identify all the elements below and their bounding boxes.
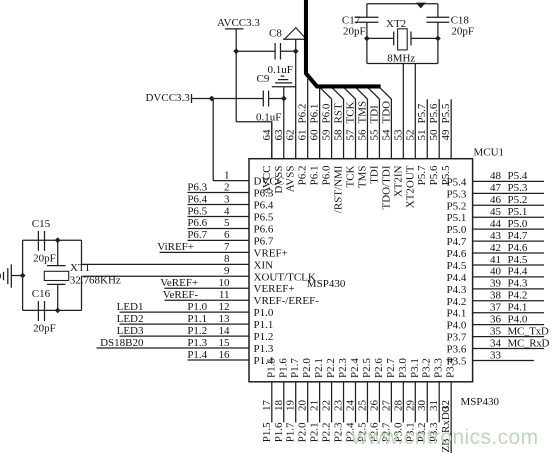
svg-text:59: 59 xyxy=(321,129,333,141)
svg-text:P6.6: P6.6 xyxy=(187,217,207,229)
svg-text:P6.7: P6.7 xyxy=(254,235,274,247)
svg-text:TCK: TCK xyxy=(344,101,356,123)
svg-text:P3.2: P3.2 xyxy=(421,358,433,378)
net label P2.2 pin 22 (rotated) xyxy=(321,422,333,442)
svg-text:P1.1: P1.1 xyxy=(254,319,274,331)
svg-text:P6.1: P6.1 xyxy=(309,104,321,124)
ground symbol (left, XT1) xyxy=(0,264,22,287)
svg-text:61: 61 xyxy=(297,130,309,141)
pin number 35 xyxy=(490,325,502,337)
svg-text:49: 49 xyxy=(440,129,452,141)
wire pin 64 (top) xyxy=(271,122,273,159)
svg-text:33: 33 xyxy=(490,349,502,361)
pin number 58 (rotated) xyxy=(333,129,345,141)
net label P5.1 pin 45 xyxy=(508,206,528,218)
wire pin 58 (top) xyxy=(343,99,345,159)
capacitor C17 value 20pF xyxy=(343,26,366,38)
svg-text:43: 43 xyxy=(490,230,502,242)
svg-text:64: 64 xyxy=(261,129,273,141)
wire pin 18 (bottom) xyxy=(283,382,285,423)
svg-text:P4.0: P4.0 xyxy=(447,320,467,332)
chip internal pin name P2.7 (pin 27) xyxy=(385,358,397,378)
chip part label MSP430 (bottom right) xyxy=(461,396,500,408)
chip internal pin name P4.1 (pin 37) xyxy=(447,308,467,320)
chip internal label MSP430 xyxy=(307,278,346,290)
node junction XT1 top xyxy=(55,237,61,243)
pin number 23 (rotated) xyxy=(333,400,345,412)
svg-text:30: 30 xyxy=(416,400,428,412)
wire pin 61 (top) xyxy=(307,79,309,159)
wire pin 31 (bottom) xyxy=(438,382,440,423)
net label DS18B20 (P1.3) xyxy=(100,337,144,349)
svg-text:C8: C8 xyxy=(269,28,282,40)
wire pin 34 (right) xyxy=(473,348,544,350)
svg-text:P6.3: P6.3 xyxy=(187,181,207,193)
power rail DVCC3.3 label xyxy=(145,92,190,104)
chip internal pin name P4.4 (pin 40) xyxy=(447,272,467,284)
pin number 17 (rotated) xyxy=(261,400,273,412)
power rail AVCC3.3 bar symbol xyxy=(225,28,244,30)
wire pin 48 (right) xyxy=(473,180,544,182)
pin number 3 xyxy=(224,193,230,205)
wire pin 26 (bottom) xyxy=(378,382,380,423)
svg-text:1: 1 xyxy=(224,169,230,181)
wire pin 24 (bottom) xyxy=(354,382,356,423)
pin number 48 xyxy=(490,170,502,182)
net label P4.3 pin 39 xyxy=(508,278,528,290)
chip internal pin name P6.5 (pin 4) xyxy=(254,211,274,223)
wire DVCC3.3 to C9 xyxy=(192,98,264,100)
chip reference designator MCU1 xyxy=(474,147,505,159)
svg-text:P4.6: P4.6 xyxy=(508,242,528,254)
chip internal pin name P1.1 (pin 13) xyxy=(254,319,274,331)
wire XT2 bottom xyxy=(367,63,438,65)
wire pin 56 (top) xyxy=(366,99,368,159)
svg-text:P6.2: P6.2 xyxy=(297,104,309,124)
svg-text:/RST/NMI: /RST/NMI xyxy=(333,165,345,213)
svg-text:P3.3: P3.3 xyxy=(433,358,445,378)
pin number 6 xyxy=(224,229,230,241)
svg-text:P2.2: P2.2 xyxy=(325,358,337,378)
net label VeREF- pin 11 xyxy=(163,289,199,301)
svg-text:P5.5: P5.5 xyxy=(440,165,452,185)
power rail DVCC3.3 tick xyxy=(191,94,193,103)
svg-text:P4.7: P4.7 xyxy=(508,230,528,242)
pin number 26 (rotated) xyxy=(368,400,380,412)
svg-text:AVSS: AVSS xyxy=(285,166,297,193)
svg-text:P2.1: P2.1 xyxy=(313,358,325,378)
chip internal pin name P2.0 (pin 20) xyxy=(301,358,313,378)
svg-text:TCK: TCK xyxy=(344,165,356,187)
net label RST pin 58 (rotated) xyxy=(333,103,345,123)
wire pin 37 (right) xyxy=(473,312,544,314)
svg-text:13: 13 xyxy=(219,313,231,325)
pin number 11 xyxy=(219,289,230,301)
wire pin 29 (bottom) xyxy=(414,382,416,423)
wire pin 9 (left) xyxy=(82,275,250,277)
wire pin 5 (left) xyxy=(188,227,250,229)
wire XT2 left vertical upper xyxy=(366,4,368,17)
svg-text:P5.0: P5.0 xyxy=(508,218,528,230)
svg-text:20pF: 20pF xyxy=(33,252,56,264)
svg-text:27: 27 xyxy=(380,400,392,412)
pin number 15 xyxy=(219,337,231,349)
net label P1.4 pin 16 xyxy=(187,349,207,361)
svg-text:P1.3: P1.3 xyxy=(254,343,274,355)
net label TCK pin 57 (rotated) xyxy=(344,101,356,123)
svg-text:XT1: XT1 xyxy=(70,262,90,274)
chip internal pin name P2.3 (pin 23) xyxy=(337,358,349,378)
wire XT1 loop bottom xyxy=(23,309,82,311)
svg-text:P1.2: P1.2 xyxy=(187,325,207,337)
svg-text:20pF: 20pF xyxy=(343,26,366,38)
svg-text:6: 6 xyxy=(224,229,230,241)
svg-text:52: 52 xyxy=(404,130,416,141)
svg-text:P5.2: P5.2 xyxy=(508,194,528,206)
wire pin 60 (top) xyxy=(319,87,321,159)
wire pin 23 (bottom) xyxy=(343,382,345,423)
wire bus entry diagonal pin 55 xyxy=(368,88,379,99)
wire bus entry diagonal pin 54 xyxy=(380,88,391,99)
chip internal pin name P5.7 (pin 51) xyxy=(416,165,428,185)
capacitor C9 plates xyxy=(263,91,268,107)
svg-text:P5.5: P5.5 xyxy=(440,103,452,123)
pin number 25 (rotated) xyxy=(356,400,368,412)
wire pin 14 (left) xyxy=(120,335,250,337)
wire pin 57 (top) xyxy=(354,99,356,159)
svg-text:P4.1: P4.1 xyxy=(447,308,467,320)
net label P5.4 pin 48 xyxy=(508,170,528,182)
wire pin 25 (bottom) xyxy=(366,382,368,423)
wire XT1 loop left vertical xyxy=(22,240,24,310)
pin number 21 (rotated) xyxy=(309,400,321,411)
capacitor C17 label xyxy=(342,15,361,27)
pin number 32 (rotated) xyxy=(440,400,452,411)
pin number 47 xyxy=(490,182,502,194)
wire pin 50 (top) xyxy=(438,99,440,159)
wire XT2 top xyxy=(367,3,438,5)
wire pin 10 (left) xyxy=(165,287,250,289)
svg-text:4: 4 xyxy=(224,205,230,217)
pin number 28 (rotated) xyxy=(392,400,404,412)
svg-text:P4.1: P4.1 xyxy=(508,302,528,314)
chip internal pin name DVSS (pin 63) xyxy=(273,166,285,194)
chip internal pin name XT2IN (pin 53) xyxy=(392,165,404,197)
wire pin 39 (right) xyxy=(473,288,544,290)
svg-text:5: 5 xyxy=(224,217,230,229)
pin number 60 (rotated) xyxy=(309,129,321,141)
node junction XT2 right xyxy=(435,36,441,42)
chip internal pin name P6.0 (pin 59) xyxy=(321,165,333,185)
net label VeREF+ pin 10 xyxy=(160,277,198,289)
net label P5.0 pin 44 xyxy=(508,218,528,230)
chip internal pin name P3.3 (pin 31) xyxy=(433,358,445,378)
svg-text:P1.6: P1.6 xyxy=(277,358,289,378)
wire pin 15 (left) xyxy=(97,347,250,349)
pin number 5 xyxy=(224,217,230,229)
wire pin 16 (left) xyxy=(188,359,250,361)
svg-text:41: 41 xyxy=(490,254,501,266)
pin number 36 xyxy=(490,313,502,325)
pin number 1 xyxy=(224,169,230,181)
net label P5.6 pin 50 (rotated) xyxy=(428,103,440,123)
net label TDO pin 54 (rotated) xyxy=(380,101,392,124)
svg-text:28: 28 xyxy=(392,400,404,412)
wire pin 28 (bottom) xyxy=(402,382,404,423)
net label P1.1 pin 13 xyxy=(187,313,207,325)
pin number 10 xyxy=(219,277,231,289)
pin number 22 (rotated) xyxy=(321,400,333,411)
wire XT2 right vertical upper xyxy=(437,4,439,17)
svg-text:XT2OUT: XT2OUT xyxy=(404,165,416,208)
svg-text:www.cntronics.com: www.cntronics.com xyxy=(351,426,539,449)
wire pin 21 (bottom) xyxy=(319,382,321,423)
svg-text:P5.6: P5.6 xyxy=(428,103,440,123)
wire pin 35 (right) xyxy=(473,336,544,338)
pin number 41 xyxy=(490,254,501,266)
pin number 19 (rotated) xyxy=(285,400,297,412)
svg-text:44: 44 xyxy=(490,218,502,230)
pin number 53 (rotated) xyxy=(392,129,404,141)
net label P6.3 pin 2 xyxy=(187,181,207,193)
net label P4.0 pin 36 xyxy=(508,313,528,325)
svg-text:P1.5: P1.5 xyxy=(261,422,273,442)
svg-text:P4.5: P4.5 xyxy=(447,260,467,272)
wire XT2 crystal row left xyxy=(367,37,394,39)
svg-text:P1.5: P1.5 xyxy=(265,358,277,378)
pin number 24 (rotated) xyxy=(344,400,356,412)
svg-text:P3.1: P3.1 xyxy=(409,358,421,378)
bus thick wire (JTAG bundle) xyxy=(306,0,381,86)
wire pin 27 (bottom) xyxy=(390,382,392,423)
wire pin 33 (right) xyxy=(473,360,534,362)
wire pin 17 (bottom) xyxy=(271,382,273,423)
pin number 49 (rotated) xyxy=(440,129,452,141)
svg-text:P5.7: P5.7 xyxy=(416,165,428,185)
net label P6.6 pin 5 xyxy=(187,217,207,229)
chip internal pin name P3.4 (pin 32) xyxy=(445,358,457,378)
pin number 54 (rotated) xyxy=(380,129,392,141)
crystal XT2 symbol xyxy=(394,29,411,50)
svg-text:P2.2: P2.2 xyxy=(321,422,333,442)
wire XT1 loop top xyxy=(23,239,82,241)
net label P4.6 pin 42 xyxy=(508,242,528,254)
svg-text:50: 50 xyxy=(428,129,440,141)
chip internal pin name P4.7 (pin 43) xyxy=(447,236,467,248)
pin number 37 xyxy=(490,302,502,314)
svg-text:ViREF+: ViREF+ xyxy=(157,241,194,253)
wire pin 55 (top) xyxy=(378,99,380,159)
svg-text:15: 15 xyxy=(219,337,231,349)
svg-text:TMS: TMS xyxy=(356,101,368,124)
pin number 62 (rotated) xyxy=(285,130,297,141)
capacitor C15 plates xyxy=(38,231,44,251)
chip internal pin name P4.6 (pin 42) xyxy=(447,248,467,260)
svg-text:LED1: LED1 xyxy=(117,301,144,313)
chip internal pin name TCK (pin 57) xyxy=(344,165,356,187)
svg-text:19: 19 xyxy=(285,400,297,412)
svg-text:P2.3: P2.3 xyxy=(337,358,349,378)
svg-text:P1.7: P1.7 xyxy=(285,422,297,442)
chip internal pin name P5.0 (pin 44) xyxy=(447,224,467,236)
chip internal pin name P3.5 (pin 33) xyxy=(447,356,467,368)
svg-text:VREF-/EREF-: VREF-/EREF- xyxy=(254,295,320,307)
chip internal pin name DVCC (pin 1) xyxy=(254,176,285,188)
net label MC_TxD pin 35 xyxy=(508,325,549,337)
svg-text:35: 35 xyxy=(490,325,502,337)
capacitor C8 value 0.1uF xyxy=(268,64,293,76)
svg-text:P4.4: P4.4 xyxy=(447,272,467,284)
wire pin 32 (bottom) xyxy=(450,382,452,453)
pin number 39 xyxy=(490,278,502,290)
wire pin 8 (left) xyxy=(82,263,250,265)
node junction AVCC/C8 xyxy=(233,48,239,54)
wire pin 49 (top) xyxy=(450,99,452,159)
svg-text:MSP430: MSP430 xyxy=(461,396,500,408)
wire bus entry diagonal pin 57 xyxy=(344,88,355,99)
chip internal pin name P1.5 (pin 17) xyxy=(265,358,277,378)
crystal XT1 symbol xyxy=(44,240,68,310)
svg-text:18: 18 xyxy=(273,400,285,412)
wire pin 43 (right) xyxy=(473,240,544,242)
wire XIN vertical xyxy=(81,240,83,264)
svg-text:45: 45 xyxy=(490,206,502,218)
svg-text:P1.0: P1.0 xyxy=(187,301,207,313)
pin number 55 (rotated) xyxy=(368,129,380,141)
crystal XT1 label xyxy=(70,262,90,274)
wire bus entry diagonal pin 59 xyxy=(321,88,332,99)
net label P2.0 pin 20 (rotated) xyxy=(297,422,309,442)
svg-text:P3.6: P3.6 xyxy=(447,344,467,356)
svg-text:P2.7: P2.7 xyxy=(385,358,397,378)
svg-text:P6.1: P6.1 xyxy=(309,166,321,186)
wire pin 45 (right) xyxy=(473,216,544,218)
svg-text:20pF: 20pF xyxy=(451,26,474,38)
svg-text:P1.0: P1.0 xyxy=(254,307,274,319)
chip internal pin name P2.6 (pin 26) xyxy=(373,358,385,378)
svg-text:P5.4: P5.4 xyxy=(508,170,528,182)
chip internal pin name AVSS (pin 62) xyxy=(285,166,297,193)
node junction C8/pin62 xyxy=(293,48,299,54)
svg-text:40: 40 xyxy=(490,266,502,278)
svg-text:9: 9 xyxy=(224,265,230,277)
capacitor C16 plates xyxy=(38,301,44,321)
svg-text:TDO/TDI: TDO/TDI xyxy=(380,165,392,209)
net label LED1 (P1.0) xyxy=(117,301,144,313)
capacitor C18 label xyxy=(451,15,470,27)
chip internal pin name P4.5 (pin 41) xyxy=(447,260,467,272)
pin number 33 xyxy=(490,349,502,361)
chip internal pin name AVCC (pin 64) xyxy=(261,166,273,195)
pin number 63 (rotated) xyxy=(273,129,285,141)
svg-text:22: 22 xyxy=(321,400,333,411)
svg-text:P6.6: P6.6 xyxy=(254,223,274,235)
svg-text:P4.2: P4.2 xyxy=(447,296,467,308)
net label P5.7 pin 51 (rotated) xyxy=(416,103,428,123)
svg-text:P5.2: P5.2 xyxy=(447,200,467,212)
svg-text:P5.0: P5.0 xyxy=(447,224,467,236)
svg-text:P3.0: P3.0 xyxy=(397,358,409,378)
wire bus entry diagonal pin 58 xyxy=(333,88,344,99)
svg-text:P2.4: P2.4 xyxy=(349,358,361,378)
wire pin 44 (right) xyxy=(473,228,544,230)
svg-text:20: 20 xyxy=(297,400,309,412)
svg-text:24: 24 xyxy=(344,400,356,412)
svg-text:VeREF-: VeREF- xyxy=(163,289,199,301)
wire pin 42 (right) xyxy=(473,252,544,254)
wire pin 59 (top) xyxy=(331,99,333,159)
svg-text:P2.0: P2.0 xyxy=(301,358,313,378)
pin number 42 xyxy=(490,242,501,254)
svg-text:P4.3: P4.3 xyxy=(508,278,528,290)
svg-text:42: 42 xyxy=(490,242,501,254)
ground symbol (AVSS/DVSS bars) xyxy=(272,76,296,87)
pin number 38 xyxy=(490,290,502,302)
chip internal pin name P2.2 (pin 22) xyxy=(325,358,337,378)
svg-text:VeREF+: VeREF+ xyxy=(160,277,198,289)
svg-text:P6.4: P6.4 xyxy=(187,193,207,205)
pin number 18 (rotated) xyxy=(273,400,285,412)
chip internal pin name P4.3 (pin 39) xyxy=(447,284,467,296)
pin number 9 xyxy=(224,265,230,277)
wire pin 62 (top) xyxy=(295,39,297,158)
capacitor C9 value 0.1uF xyxy=(256,112,281,124)
pin number 43 xyxy=(490,230,502,242)
wire pin 11 (left) xyxy=(165,299,250,301)
svg-text:53: 53 xyxy=(392,129,404,141)
svg-text:37: 37 xyxy=(490,302,502,314)
svg-text:12: 12 xyxy=(219,301,230,313)
capacitor C16 value 20pF xyxy=(33,323,56,335)
svg-text:LED3: LED3 xyxy=(117,325,144,337)
pin number 64 (rotated) xyxy=(261,129,273,141)
wire pin 64 lower segment xyxy=(271,122,273,159)
net label P1.0 pin 12 xyxy=(187,301,207,313)
chip internal pin name P3.1 (pin 29) xyxy=(409,358,421,378)
watermark www.cntronics.com xyxy=(351,426,539,449)
svg-text:P2.1: P2.1 xyxy=(309,422,321,442)
svg-text:34: 34 xyxy=(490,337,502,349)
svg-text:21: 21 xyxy=(309,400,321,411)
svg-text:P6.2: P6.2 xyxy=(297,166,309,186)
crystal XT2 label xyxy=(386,18,406,30)
net label P6.5 pin 4 xyxy=(187,205,207,217)
svg-text:P4.2: P4.2 xyxy=(508,290,528,302)
svg-text:VEREF+: VEREF+ xyxy=(254,283,295,295)
svg-text:7: 7 xyxy=(224,241,230,253)
svg-text:DVSS: DVSS xyxy=(273,166,285,194)
svg-text:MCU1: MCU1 xyxy=(474,147,505,159)
pin number 51 (rotated) xyxy=(416,130,428,141)
svg-text:XOUT/TCLK: XOUT/TCLK xyxy=(254,271,316,283)
node junction ground/XT1 loop xyxy=(20,273,26,279)
svg-text:P5.7: P5.7 xyxy=(416,103,428,123)
svg-text:10: 10 xyxy=(219,277,231,289)
chip internal pin name XOUT/TCLK (pin 9) xyxy=(254,271,316,283)
svg-text:16: 16 xyxy=(219,349,231,361)
chip internal pin name P1.4 (pin 16) xyxy=(254,355,274,367)
svg-text:AVCC3.3: AVCC3.3 xyxy=(217,17,260,29)
svg-text:TDI: TDI xyxy=(368,105,380,124)
svg-text:P1.6: P1.6 xyxy=(273,422,285,442)
svg-text:TDO: TDO xyxy=(380,101,392,124)
svg-text:2: 2 xyxy=(224,181,230,193)
net label LED2 (P1.1) xyxy=(117,313,144,325)
net label P3.2 pin 30 (rotated) xyxy=(416,422,428,442)
svg-text:P1.2: P1.2 xyxy=(254,331,274,343)
svg-text:DVCC3.3: DVCC3.3 xyxy=(145,92,190,104)
capacitor C8 label xyxy=(269,28,282,40)
